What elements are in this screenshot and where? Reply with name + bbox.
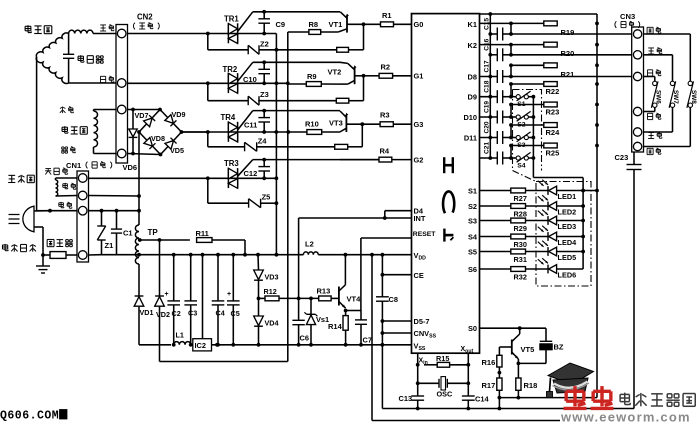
svg-text:K2: K2 <box>468 41 477 50</box>
diode VD3 column from rail <box>256 253 260 257</box>
svg-text:C21: C21 <box>483 142 490 154</box>
resistor R10 <box>322 131 340 133</box>
switch SW7 <box>644 54 673 56</box>
resistor R11 <box>197 238 212 243</box>
wire VDD rail to IC <box>318 254 411 256</box>
link column <box>510 146 512 159</box>
wire S1 row <box>480 190 511 192</box>
capacitor C14 <box>462 395 475 397</box>
resistor R22 <box>544 82 557 87</box>
link column <box>510 65 512 76</box>
diode VD4 <box>258 298 260 316</box>
watermark graduation cap <box>548 363 594 385</box>
transistor VT5 <box>519 328 521 334</box>
svg-text:LED6: LED6 <box>558 270 577 279</box>
wire S4 row <box>480 236 511 238</box>
LED2 <box>526 205 549 207</box>
resistor R6 <box>336 98 349 103</box>
wire resistor row <box>511 104 544 106</box>
wire Xin drop <box>417 353 419 396</box>
link column <box>510 84 512 97</box>
wire top line <box>253 61 340 63</box>
LED anode bus <box>582 178 584 270</box>
svg-text:C10: C10 <box>243 75 257 84</box>
label 天蓝色 <box>45 168 51 170</box>
svg-text:CN3: CN3 <box>620 12 635 21</box>
svg-text:R31: R31 <box>514 255 527 264</box>
svg-text:VD7: VD7 <box>135 111 149 120</box>
LED2 arrows <box>538 196 544 201</box>
wire rail to IC2 <box>201 253 205 257</box>
link column <box>510 125 512 138</box>
wire R5 to base node <box>349 49 364 51</box>
transistor VT4 <box>338 287 340 306</box>
wire switch to common column <box>528 157 533 159</box>
svg-text:VT2: VT2 <box>328 68 342 77</box>
svg-text:G0: G0 <box>414 20 424 29</box>
svg-text:S1: S1 <box>468 186 477 195</box>
svg-text:C15: C15 <box>483 18 490 30</box>
svg-text:LED4: LED4 <box>558 238 578 247</box>
resistor R18 <box>516 378 521 390</box>
svg-text:TP: TP <box>148 228 159 237</box>
svg-text:R2: R2 <box>381 63 391 72</box>
wire AC live rail y254.7 <box>89 254 101 256</box>
svg-text:VT1: VT1 <box>329 20 343 29</box>
label 橙色 bottom <box>647 147 653 149</box>
label motor 电动机 <box>25 25 31 27</box>
wire top line <box>253 11 340 13</box>
svg-text:C23: C23 <box>615 153 629 162</box>
wire IC top to bus V+ <box>480 13 598 15</box>
svg-text:VD8: VD8 <box>151 134 165 143</box>
svg-text:C19: C19 <box>483 101 490 113</box>
svg-text:LED5: LED5 <box>558 253 577 262</box>
resistor R14 <box>345 311 347 316</box>
capacitor C1 <box>116 211 118 229</box>
connector CN2 <box>116 25 128 164</box>
bus V+ vertical x597 <box>596 14 598 398</box>
svg-text:C12: C12 <box>244 169 258 178</box>
wire gate drop to Z4 <box>207 132 209 147</box>
label 进水阀 <box>8 174 15 176</box>
diode VD2 column <box>159 240 161 296</box>
resistor R23 <box>544 102 557 107</box>
resistor R5 <box>337 47 349 52</box>
svg-text:VD1: VD1 <box>140 308 154 317</box>
transistor VT3 <box>345 115 347 132</box>
capacitor C7 <box>360 311 362 320</box>
svg-text:C5: C5 <box>231 309 240 318</box>
wire top line <box>253 159 379 161</box>
svg-text:R11: R11 <box>196 229 209 238</box>
wire S5 row <box>480 251 511 253</box>
svg-text:R28: R28 <box>514 210 527 219</box>
buzzer BZ <box>540 340 552 342</box>
wire CE to C8 column <box>382 274 411 276</box>
bridge diode VD7 <box>144 115 156 127</box>
wire S0 row <box>480 327 547 329</box>
LED5 arrows <box>538 242 544 247</box>
wire R11 to DC rail <box>212 239 245 241</box>
wire R6 to base node <box>349 100 364 102</box>
wire R7 to base node <box>348 146 363 148</box>
wire resistor row <box>511 124 544 126</box>
LED4 arrows <box>538 227 544 232</box>
wire Xout drop <box>467 353 469 396</box>
wire key row to CN3 <box>511 54 633 56</box>
svg-text:R18: R18 <box>524 381 538 390</box>
resistor R15 <box>437 362 449 367</box>
wire TR1 to top line <box>238 12 253 32</box>
bus B vertical <box>287 32 289 362</box>
dash-dot key panel box <box>513 90 542 182</box>
svg-text:VT3: VT3 <box>329 119 343 128</box>
resistor R12 <box>259 297 266 299</box>
capacitor 电容器 motor run cap <box>68 34 70 55</box>
svg-text:SW8: SW8 <box>690 90 697 104</box>
motor M1 winding top (red lead) <box>69 30 93 33</box>
capacitor C2 <box>172 253 176 257</box>
wire brown lead to CN2 pin2 <box>69 82 116 84</box>
label 橙色 top <box>647 26 653 28</box>
svg-text:C7: C7 <box>363 336 372 345</box>
label 黑色 (mains) <box>59 202 64 204</box>
svg-text:R13: R13 <box>317 287 331 296</box>
wire Z4 line to R7 <box>257 146 335 148</box>
svg-text:VD3: VD3 <box>265 273 279 282</box>
svg-text:+: + <box>165 291 169 298</box>
triac TR2 <box>227 73 229 93</box>
IC U1 body <box>412 14 480 354</box>
svg-text:R19: R19 <box>561 28 575 37</box>
capacitor C13 <box>411 395 424 397</box>
svg-text:SW7: SW7 <box>672 90 679 104</box>
wire pin D9 row with key switch <box>480 96 498 98</box>
wire D4 to INT link <box>385 210 412 212</box>
inductor L1 <box>174 342 191 345</box>
label 黄色 bottom <box>648 131 654 133</box>
resistor R17 <box>497 378 502 390</box>
svg-text:VT5: VT5 <box>521 345 535 354</box>
svg-text:R15: R15 <box>436 354 449 363</box>
wire pin D10 row with key switch <box>480 116 498 118</box>
wire RESET column <box>360 238 362 311</box>
wire Z5 to bus A <box>261 202 277 204</box>
wire to buzzer <box>545 328 547 341</box>
crystal OSC <box>418 382 439 384</box>
svg-text:D5-7: D5-7 <box>414 317 430 326</box>
wire key common column to LED bus <box>532 97 534 178</box>
LED1 <box>526 190 549 192</box>
svg-text:C13: C13 <box>399 394 413 403</box>
svg-text:S4: S4 <box>517 163 526 170</box>
wire switch to common column <box>528 137 533 139</box>
motor M1 winding bottom-left <box>36 57 68 83</box>
svg-text:L2: L2 <box>305 240 314 249</box>
resistor R2 <box>364 75 380 77</box>
svg-text:R24: R24 <box>546 128 561 137</box>
svg-text:S2: S2 <box>468 202 477 211</box>
diode VD1 column <box>138 264 140 296</box>
svg-text:Z4: Z4 <box>258 136 268 145</box>
element Z3 <box>247 96 249 105</box>
wire LED1 row to V+ bus <box>583 190 597 192</box>
svg-text:S4: S4 <box>468 232 478 241</box>
capacitor C9 <box>262 10 266 14</box>
transistor VT2 <box>354 67 356 84</box>
label 黄色 top <box>648 47 654 49</box>
wire CNVss row <box>382 332 411 334</box>
ground symbol <box>36 265 50 267</box>
svg-text:INT: INT <box>414 214 426 223</box>
svg-text:VD2: VD2 <box>156 310 170 319</box>
switch S2 <box>516 115 520 119</box>
dash-dot LED box <box>536 182 591 287</box>
svg-text:OSC: OSC <box>437 390 454 399</box>
wire plug live lead <box>34 210 50 212</box>
bus cap common vertical x490 <box>489 14 491 158</box>
link column <box>510 45 512 55</box>
svg-text:D9: D9 <box>468 93 477 102</box>
capacitor C6 <box>292 319 304 321</box>
svg-text:Z5: Z5 <box>262 193 271 202</box>
svg-text:R23: R23 <box>546 107 560 116</box>
svg-text:VD4: VD4 <box>265 319 279 328</box>
bus A vertical <box>275 34 277 255</box>
svg-text:R8: R8 <box>309 20 319 29</box>
wire pin D8 row to CN3 <box>480 76 498 78</box>
wire INT sense column <box>298 218 300 320</box>
LED3 <box>526 220 549 222</box>
diode VD6 <box>132 110 134 130</box>
wire main TR3 channel <box>89 177 277 179</box>
watermark 虫虫 red <box>573 386 576 406</box>
wire L1 to IC2 <box>191 344 193 346</box>
svg-text:C4: C4 <box>216 309 225 318</box>
capacitor C4 <box>216 253 220 257</box>
label 红色 <box>100 24 106 26</box>
wire resistor row <box>511 64 544 66</box>
resistor R3 <box>362 123 380 125</box>
wire pin D11 row with key switch <box>480 137 498 139</box>
label 紫色 <box>62 146 64 148</box>
wire TR3 to top line <box>238 160 253 177</box>
wire R17 R18 to V+ bus bottom <box>499 397 597 399</box>
wire key row to CN3 <box>511 33 633 35</box>
svg-text:C20: C20 <box>483 121 490 133</box>
wire pin row K1 <box>480 22 544 24</box>
bridge diode VD8 <box>144 137 156 149</box>
svg-text:R29: R29 <box>514 224 527 233</box>
wire switch to common column <box>528 96 533 98</box>
svg-text:LED1: LED1 <box>558 192 577 201</box>
capacitor C5 <box>231 253 235 257</box>
svg-text:C18: C18 <box>483 80 490 92</box>
svg-text:Z1: Z1 <box>105 241 114 250</box>
label IC1 rotated <box>444 164 453 167</box>
wire pin D12 row with key switch <box>480 157 498 159</box>
element Z5 <box>248 199 250 208</box>
svg-text:G1: G1 <box>414 72 424 81</box>
inlet valve coil <box>56 180 58 196</box>
resistor R27 <box>511 188 526 193</box>
resistor R24 <box>544 123 557 128</box>
capacitor C11 <box>262 109 266 113</box>
svg-text:R14: R14 <box>328 322 343 331</box>
resistor R19 <box>544 21 557 26</box>
wire bottom ground rail <box>382 408 634 410</box>
LED1 arrows <box>538 181 544 186</box>
wire outer ground column <box>370 253 374 257</box>
resistor R28 <box>511 204 526 209</box>
svg-text:K1: K1 <box>468 20 477 29</box>
svg-text:VD6: VD6 <box>123 163 138 172</box>
label 棕色 <box>101 75 106 77</box>
power plug 电源插头 <box>23 206 34 232</box>
fuse F1 <box>41 253 45 257</box>
svg-text:R3: R3 <box>380 111 390 120</box>
svg-text:R10: R10 <box>305 120 319 129</box>
label 熔断器 <box>47 238 54 240</box>
wire S6 row <box>480 268 511 270</box>
wire CN2 pin3 to bridge top <box>128 109 161 111</box>
resistor R20 <box>544 42 557 47</box>
svg-text:RESET: RESET <box>413 231 437 238</box>
wire emitter node to RESET column <box>346 310 361 312</box>
svg-text:R9: R9 <box>307 72 317 81</box>
resistor R32 <box>511 267 526 272</box>
wire VD2 negative rail y361.5 <box>160 361 288 363</box>
capacitor C15 <box>490 33 497 35</box>
IC2 regulator box <box>193 339 212 351</box>
bridge diode VD9 <box>165 115 177 127</box>
capacitor C23 <box>633 152 635 164</box>
wire resistor row <box>511 83 544 85</box>
motor M1 winding top-left <box>36 33 68 57</box>
wire switch to common column <box>528 116 533 118</box>
svg-text:R1: R1 <box>382 11 392 20</box>
svg-text:www.eeworm.com: www.eeworm.com <box>560 410 691 423</box>
svg-text:C3: C3 <box>188 309 197 318</box>
svg-text:BZ: BZ <box>554 343 564 352</box>
LED6 arrows <box>538 259 544 264</box>
resistor R9 <box>321 83 340 85</box>
solenoid 电磁圈 coil <box>94 111 98 147</box>
svg-text:D11: D11 <box>464 133 477 142</box>
svg-text:R21: R21 <box>561 70 575 79</box>
switch S4 <box>516 156 520 160</box>
svg-text:LED3: LED3 <box>558 222 577 231</box>
wire CN2 pin4 to bridge bottom <box>128 154 161 155</box>
wire main TR2 channel <box>128 82 288 84</box>
svg-text:CN2: CN2 <box>137 13 153 22</box>
resistor R21 <box>544 63 557 68</box>
wire Z2 line to R5 <box>259 49 337 51</box>
svg-text:C14: C14 <box>475 395 489 404</box>
svg-text:C9: C9 <box>276 20 286 29</box>
varistor Z1 <box>101 211 103 226</box>
resistor R31 <box>511 249 526 254</box>
inductor L2 <box>303 252 318 255</box>
svg-text:VT4: VT4 <box>347 295 362 304</box>
svg-text:C6: C6 <box>300 334 309 343</box>
wire CN1 pin3 right (neutral) <box>89 210 140 212</box>
svg-text:R20: R20 <box>561 49 575 58</box>
svg-text:SW6: SW6 <box>654 90 661 104</box>
wire top line to R4 and G2 <box>340 159 379 161</box>
LED5 <box>526 251 549 253</box>
svg-text:IC2: IC2 <box>195 341 207 350</box>
bridge diode VD5 <box>165 138 177 150</box>
svg-text:R17: R17 <box>482 381 496 390</box>
LED4 <box>526 236 549 238</box>
connector CN3 <box>632 27 644 152</box>
wire S3 row <box>480 220 511 222</box>
resistor R16 <box>497 355 502 367</box>
svg-text:C17: C17 <box>483 60 490 72</box>
wire main TR4 channel <box>182 131 289 133</box>
node bridge DC+ to TR4 <box>180 130 184 134</box>
transistor VT1 <box>346 16 348 33</box>
svg-text:R32: R32 <box>514 273 527 282</box>
wire ground drop to bottom rail <box>381 345 383 409</box>
svg-text:R12: R12 <box>264 287 277 296</box>
svg-text:TR1: TR1 <box>224 15 239 24</box>
triac TR4 <box>227 122 229 142</box>
svg-text:D10: D10 <box>463 113 477 122</box>
resistor R29 <box>511 218 526 223</box>
svg-text:+: + <box>227 291 231 298</box>
svg-text:Z2: Z2 <box>260 39 269 48</box>
wire top line <box>253 110 340 112</box>
svg-text:C1: C1 <box>123 229 133 238</box>
wire resistor row <box>511 145 544 147</box>
svg-text:LED2: LED2 <box>558 207 577 216</box>
svg-text:L1: L1 <box>176 331 184 340</box>
label 灰色 <box>62 107 64 114</box>
label （红色） <box>133 23 135 30</box>
wire gate drop to Z2 <box>207 34 209 50</box>
wire TR2 to top line <box>238 62 253 81</box>
watermark 电子下载站 <box>620 393 629 395</box>
wire Z3 line to R6 <box>258 100 336 102</box>
svg-text:CE: CE <box>414 271 424 280</box>
svg-text:C11: C11 <box>244 121 257 130</box>
svg-text:R4: R4 <box>380 147 390 156</box>
svg-text:S3: S3 <box>468 216 477 225</box>
LED6 <box>526 268 549 270</box>
link column <box>510 23 512 34</box>
wire bridge DC- / neutral column <box>138 132 140 225</box>
label （白色） <box>615 21 616 28</box>
svg-text:R16: R16 <box>482 358 496 367</box>
wire pin row K2 <box>480 44 544 46</box>
resistor R7 <box>335 144 348 149</box>
label 电磁圈 <box>62 126 67 128</box>
label 蓝色 bottom <box>648 112 653 114</box>
resistor R13 <box>296 297 319 299</box>
svg-text:R27: R27 <box>514 194 527 203</box>
triac TR1 <box>227 23 229 43</box>
wire INT line <box>299 217 412 219</box>
wire S2 row <box>480 205 511 207</box>
triac TR3 <box>227 168 229 188</box>
switch SW8 <box>644 33 691 35</box>
svg-text:C16: C16 <box>483 38 490 50</box>
wire outer bottom rail <box>372 420 560 422</box>
svg-text:Q606.COM: Q606.COM <box>0 410 59 423</box>
